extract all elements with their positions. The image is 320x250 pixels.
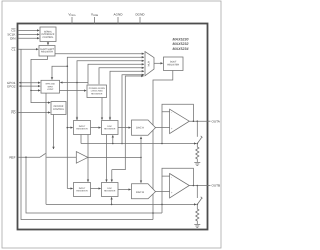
box U7 decode control bbox=[51, 102, 66, 115]
svg-text:CL: CL bbox=[12, 47, 16, 51]
wire arrow into input register B bbox=[67, 188, 72, 190]
wire input regA to dac regA bbox=[91, 127, 101, 129]
wire mux line5 bbox=[99, 68, 144, 84]
node j1 bbox=[67, 65, 69, 67]
svg-text:CONTROL: CONTROL bbox=[53, 108, 65, 111]
svg-text:REF: REF bbox=[9, 155, 15, 159]
svg-text:CONTROL: CONTROL bbox=[42, 36, 54, 39]
wire outA down to switch A bbox=[196, 121, 198, 137]
svg-text:MUX: MUX bbox=[147, 61, 150, 67]
node j18 bbox=[152, 212, 154, 214]
svg-text:POWER-DOWN: POWER-DOWN bbox=[89, 87, 105, 90]
wire mux line4 (pd readback) bbox=[88, 64, 144, 84]
svg-text:-: - bbox=[171, 175, 172, 179]
wire ref down into DAC B bbox=[140, 157, 142, 182]
switch S2 gain A bbox=[197, 137, 202, 143]
wire riser from input regA bottom bbox=[80, 135, 82, 144]
wire pd to dac register A bbox=[101, 98, 103, 120]
wire CL to shift register bbox=[18, 48, 38, 50]
svg-text:INPUT: INPUT bbox=[79, 187, 86, 190]
wire ref to dac ladders bbox=[88, 156, 141, 158]
buffer amp A1 bbox=[76, 152, 88, 164]
resistor R2 bbox=[196, 204, 199, 224]
wire REF to switch bbox=[18, 156, 40, 158]
wire gpo-pd upper link bbox=[60, 82, 88, 84]
pin OUTB tick bbox=[208, 185, 211, 187]
svg-text:DIN: DIN bbox=[10, 36, 15, 40]
node j15 bbox=[111, 204, 113, 206]
pin VDDB tick bbox=[94, 17, 96, 24]
node j4 bbox=[30, 90, 32, 92]
node j2 bbox=[67, 127, 69, 129]
box U8 input register A bbox=[74, 121, 91, 135]
DAC B converter bbox=[132, 184, 156, 199]
wire arrow into input register A bbox=[67, 127, 72, 129]
node j9 bbox=[112, 143, 114, 145]
wire mux line2 (from input registers data vertical) bbox=[67, 57, 144, 188]
node j12 bbox=[197, 143, 199, 145]
wire shift reg to MUX line1 bbox=[55, 53, 144, 55]
wire row A cascade to input reg B bbox=[87, 135, 89, 182]
svg-text:DAC A: DAC A bbox=[136, 127, 144, 130]
node j6 bbox=[140, 157, 142, 159]
IC boundary box bbox=[18, 24, 208, 230]
svg-text:LOGIC AND: LOGIC AND bbox=[91, 90, 103, 93]
wire ref low bus bbox=[26, 157, 162, 213]
svg-text:REGISTER: REGISTER bbox=[104, 190, 116, 193]
switch S2 contact tick bbox=[201, 136, 203, 138]
svg-text:REGISTER: REGISTER bbox=[104, 128, 116, 131]
svg-text:INPUT: INPUT bbox=[79, 125, 86, 128]
box U5 gpo and gpio logic bbox=[41, 80, 60, 93]
svg-text:VDDB: VDDB bbox=[91, 13, 99, 18]
resistor R1 bbox=[196, 144, 199, 163]
ground B bbox=[194, 224, 200, 227]
wire GPO1 bbox=[19, 82, 40, 84]
svg-text:REGISTER: REGISTER bbox=[91, 92, 103, 95]
wire input regB to dac regB bbox=[91, 188, 101, 190]
node j17 bbox=[197, 204, 199, 206]
DAC A converter bbox=[132, 120, 156, 135]
node j7 bbox=[193, 120, 195, 122]
wire dac regB readback bbox=[112, 76, 144, 170]
wire arrow into dac reg B top bbox=[111, 170, 113, 182]
wire GPO2 bbox=[19, 85, 40, 87]
divider line B bbox=[46, 203, 196, 205]
svg-text:REGISTER: REGISTER bbox=[76, 128, 88, 131]
page frame bbox=[2, 1, 221, 248]
wire dac regA to DAC A bbox=[118, 127, 131, 129]
svg-text:OUTB: OUTB bbox=[212, 184, 221, 188]
svg-text:REGISTER: REGISTER bbox=[167, 64, 179, 67]
wire riser arrow into dac regB bottom bbox=[111, 197, 113, 204]
wire dout register down-left bbox=[153, 71, 173, 220]
pin OUTA tick bbox=[208, 120, 211, 122]
switch S1 ref bbox=[40, 153, 76, 157]
wire gpo to pd register bbox=[60, 90, 87, 92]
svg-text:LOGIC: LOGIC bbox=[47, 88, 54, 91]
svg-text:GPIO: GPIO bbox=[48, 85, 54, 88]
wire cl wrap bus bbox=[21, 49, 153, 219]
wire decode to ref switch bbox=[53, 115, 55, 150]
wire opamp A feedback bbox=[162, 104, 193, 121]
wire branch to gpo third input bbox=[31, 89, 40, 91]
wire ref up into DAC A bbox=[140, 137, 142, 158]
node j16 bbox=[161, 204, 163, 206]
box U1 serial interface control bbox=[40, 27, 56, 42]
svg-text:REGISTER: REGISTER bbox=[41, 51, 53, 54]
wire PD to decode bbox=[18, 112, 50, 114]
wire mux to dout register bbox=[154, 62, 163, 64]
wire feedback vertical B to divider bbox=[161, 176, 163, 213]
wire serial-to-shift bbox=[47, 42, 49, 45]
wire shiftreg decode net bbox=[31, 56, 50, 103]
mux U3 bbox=[145, 52, 154, 76]
box U10 input register B bbox=[74, 183, 91, 197]
wire mux line6 bbox=[110, 71, 144, 120]
svg-text:GPO2: GPO2 bbox=[7, 84, 16, 88]
box U2 16-bit shift register bbox=[39, 46, 55, 57]
node j11 bbox=[161, 143, 163, 145]
switch S3 contact tick bbox=[201, 197, 203, 199]
wire branch to GPO logic top bbox=[52, 66, 67, 79]
wire row A cascade to dac reg B bbox=[106, 135, 108, 182]
node j14 bbox=[197, 185, 199, 187]
svg-text:MAX5232: MAX5232 bbox=[173, 42, 189, 46]
wire arrow into dac reg A top bbox=[109, 116, 111, 120]
op-amp U12 A bbox=[170, 109, 190, 133]
divider line A bbox=[81, 143, 196, 145]
op-amp U13 B bbox=[170, 174, 190, 198]
wire dac regB to DAC B bbox=[118, 189, 131, 191]
box U6 power-down logic and register bbox=[87, 85, 107, 98]
svg-text:AGND: AGND bbox=[114, 13, 124, 17]
wire CS bbox=[18, 29, 39, 31]
wire riser gpo bottom net bbox=[45, 93, 47, 204]
svg-text:MAX5230: MAX5230 bbox=[173, 37, 189, 41]
pin DGND tick bbox=[139, 17, 141, 24]
wire outB down to switch B bbox=[196, 186, 198, 199]
wire mux line3 (gpo net) bbox=[77, 61, 144, 120]
svg-text:SERIAL: SERIAL bbox=[44, 30, 53, 33]
svg-text:MAX5234: MAX5234 bbox=[173, 47, 189, 51]
svg-text:-: - bbox=[171, 111, 172, 115]
node j8 bbox=[197, 120, 199, 122]
svg-text:16-BIT SHIFT: 16-BIT SHIFT bbox=[40, 48, 55, 51]
svg-text:OUTA: OUTA bbox=[212, 119, 221, 123]
svg-text:DECODE: DECODE bbox=[54, 105, 64, 108]
wire dacA to opamp plus bbox=[156, 127, 170, 129]
wire dacB to opamp plus bbox=[156, 191, 170, 193]
wire SCLK bbox=[18, 33, 39, 35]
box U11 dac register B bbox=[102, 183, 119, 197]
node j5 bbox=[25, 156, 27, 158]
svg-text:REGISTER: REGISTER bbox=[76, 190, 88, 193]
ground A bbox=[194, 162, 200, 165]
wire feedback vertical to divider A bbox=[161, 112, 163, 144]
pin VDDA tick bbox=[71, 17, 73, 24]
svg-text:VDDA: VDDA bbox=[68, 13, 76, 18]
svg-text:INTERFACE: INTERFACE bbox=[42, 33, 55, 36]
wire DIN bbox=[18, 37, 39, 39]
svg-text:PD: PD bbox=[11, 111, 16, 115]
node j13 bbox=[193, 185, 195, 187]
box U9 dac register A bbox=[102, 121, 119, 135]
wire arrow into input reg A top bbox=[76, 116, 78, 120]
svg-text:DOUT: DOUT bbox=[170, 61, 177, 64]
wire opamp B feedback bbox=[162, 168, 193, 185]
part numbers MAX5230/MAX5232/MAX5234 bbox=[173, 37, 189, 51]
svg-text:DGND: DGND bbox=[135, 13, 145, 17]
wire OUTA bbox=[189, 120, 207, 122]
wire OUTB bbox=[189, 185, 207, 187]
svg-text:GPO AND: GPO AND bbox=[45, 83, 55, 86]
pin AGND tick bbox=[117, 17, 119, 24]
node j10 bbox=[121, 143, 123, 145]
node j3 bbox=[76, 82, 78, 84]
box U4 dout register bbox=[164, 57, 184, 71]
svg-text:DAC: DAC bbox=[107, 125, 112, 128]
svg-text:DAC B: DAC B bbox=[136, 191, 144, 194]
wire riser arrow into dac regA bottom bbox=[112, 135, 114, 143]
wire mux line7 bbox=[122, 75, 144, 144]
switch S3 gain B bbox=[197, 198, 202, 204]
svg-text:DAC: DAC bbox=[107, 187, 112, 190]
